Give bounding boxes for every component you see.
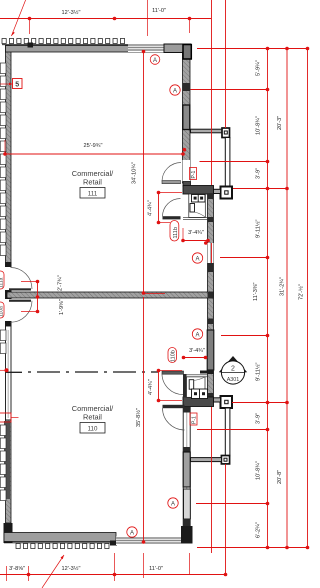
window boxes on exterior face of left wall	[0, 63, 6, 501]
wall: upper vestibule top wall	[183, 182, 214, 195]
witness y=89	[191, 89, 268, 91]
wall: mid right wall (vestibule to section line)	[207, 194, 214, 398]
svg-text:A: A	[195, 333, 199, 339]
top storefront window section	[128, 44, 164, 53]
dim 3'-4 3/4" upper vestibule	[181, 228, 210, 242]
door 110a swing arc	[11, 301, 33, 323]
witness y=547.5	[197, 547, 308, 549]
door lower second leaf (black)	[163, 405, 185, 408]
door tag 110b	[168, 348, 177, 363]
right dimension chain line 3	[306, 47, 310, 550]
svg-text:4'-4¾": 4'-4¾"	[148, 200, 154, 216]
door 111a swing arc	[11, 268, 33, 290]
svg-text:12'-3½": 12'-3½"	[62, 565, 81, 572]
door lower second swing arc	[163, 408, 185, 430]
svg-text:6'-2¼": 6'-2¼"	[256, 522, 262, 538]
svg-text:9'-11½": 9'-11½"	[255, 362, 262, 381]
wall: lower vestibule bottom wall	[183, 397, 214, 407]
interior vertical dim line x=143.5	[142, 50, 165, 544]
leader arrow top-left	[11, 0, 25, 36]
storefront face line bottom	[4, 542, 114, 544]
svg-text:1'-9⅝": 1'-9⅝"	[59, 299, 65, 315]
wall tag A (right wall upper)	[170, 85, 180, 95]
svg-text:111b: 111b	[173, 227, 179, 238]
room label 111	[72, 169, 114, 198]
svg-text:110a: 110a	[0, 306, 5, 317]
svg-text:3'-4¾": 3'-4¾"	[188, 230, 204, 236]
svg-text:2'-7¾": 2'-7¾"	[58, 275, 64, 291]
witness y=402	[232, 402, 287, 404]
svg-text:9'-11½": 9'-11½"	[255, 219, 262, 238]
dim 4'-4 3/4" upper vestibule	[157, 191, 182, 225]
svg-text:3'-9": 3'-9"	[256, 413, 262, 424]
upper vestibule door leaf rect	[190, 204, 195, 213]
column post mid-right	[221, 187, 233, 199]
wall tag A (top wall)	[150, 55, 160, 65]
wall tag A (lower mid wall)	[192, 329, 202, 339]
wall tag A (bottom wall)	[127, 527, 137, 537]
wall: demising wall between units	[7, 292, 214, 298]
top dimension line	[0, 17, 211, 34]
upper vestibule threshold lines	[183, 217, 208, 219]
storefront teeth along bottom wall	[16, 544, 109, 549]
svg-text:110b: 110b	[171, 350, 177, 362]
keynote box bottom-left (cut)	[0, 413, 19, 422]
upper vestibule inner leaf arc	[195, 212, 206, 217]
svg-text:A301: A301	[227, 377, 240, 383]
tag P-1 lower	[190, 413, 198, 425]
storefront joint notch	[28, 43, 34, 48]
red dot mid wall	[204, 241, 208, 245]
svg-text:A: A	[173, 89, 177, 95]
bottom wall joint block	[110, 541, 117, 546]
svg-text:Retail: Retail	[83, 178, 102, 187]
grid line x=146.5 top	[147, 0, 149, 36]
wall: left wall door openings (white gaps)	[5, 267, 12, 322]
upper vestibule equipment double-square	[192, 195, 206, 203]
dim 3'-4 3/4" lower vestibule	[182, 356, 208, 360]
door tag 111b	[170, 221, 179, 242]
upper terrace vertical railing	[225, 138, 230, 187]
door 110 lower vestibule swing arc	[162, 374, 183, 395]
door 110 lower vestibule leaf (gray)	[162, 371, 184, 374]
lower terrace horizontal railing	[191, 458, 222, 462]
upper terrace horizontal railing	[191, 129, 223, 133]
witness y=503	[196, 503, 268, 505]
witness y=429	[197, 429, 268, 431]
wall: top-right corner block	[164, 44, 191, 53]
tag P-1 upper	[190, 168, 198, 180]
witness y=48.5	[197, 48, 308, 50]
svg-text:A: A	[171, 502, 175, 508]
lower vestibule door leaf rect	[189, 380, 194, 390]
svg-text:25'-9¾": 25'-9¾"	[84, 143, 103, 149]
right dimension chain line 2	[285, 47, 289, 550]
door 110a leaf	[9, 300, 31, 302]
lower vestibule equipment double-square	[192, 389, 208, 399]
wall: bottom exterior wall band	[4, 533, 116, 542]
svg-text:Retail: Retail	[83, 413, 102, 422]
bottom dimension line	[0, 553, 227, 581]
svg-text:111a: 111a	[0, 277, 5, 288]
lower vestibule left jamb strip	[183, 374, 187, 398]
red dot right wall upper	[183, 148, 187, 152]
interior dim 25'-9 3/4"	[3, 140, 185, 156]
svg-text:12'-3½": 12'-3½"	[62, 9, 81, 16]
svg-text:3'-4¾": 3'-4¾"	[189, 348, 205, 354]
section marker 2/A301 circle	[221, 361, 245, 384]
right dimension chain line 1	[266, 47, 270, 550]
red dot at left wall on section line	[0, 369, 7, 371]
svg-text:20'-3": 20'-3"	[277, 116, 283, 130]
lower terrace vertical railing	[225, 408, 230, 456]
column post lower-mid	[221, 396, 233, 408]
grid line x=225.5	[225, 0, 227, 128]
door 111 upper vestibule leaf (gray)	[162, 181, 181, 184]
lower vestibule inner room outline	[187, 377, 206, 398]
grid line x=143.5 bottom stub	[143, 553, 145, 578]
door tag 110a	[0, 302, 5, 318]
svg-text:20'-8": 20'-8"	[277, 470, 283, 484]
svg-text:P-1: P-1	[192, 416, 198, 424]
dash-dot section line	[6, 371, 158, 373]
svg-text:5'-9¼": 5'-9¼"	[256, 60, 262, 76]
wall: left wall jamb blocks	[4, 262, 13, 543]
room label 110	[72, 404, 114, 433]
door vestibule second leaf (black)	[163, 216, 181, 219]
witness y=257	[220, 257, 268, 259]
leader arrow bottom	[42, 555, 64, 588]
dim 4'-4 3/4" lower vestibule	[157, 369, 182, 403]
witness y=158	[200, 161, 268, 163]
svg-text:3'-8⅝": 3'-8⅝"	[9, 566, 25, 572]
wall: top exterior wall band	[6, 46, 191, 53]
storefront face line top	[2, 44, 128, 46]
lower vestibule inner leaf arc	[194, 377, 205, 381]
svg-text:111: 111	[88, 191, 98, 198]
svg-text:31'-2¾": 31'-2¾"	[280, 277, 286, 296]
witness y=335	[221, 335, 268, 337]
svg-text:A: A	[195, 257, 199, 263]
svg-text:5: 5	[15, 82, 19, 89]
wall: left exterior wall gray band	[6, 46, 12, 524]
upper vestibule inner room outline	[189, 194, 206, 218]
svg-text:35'-8½": 35'-8½"	[135, 408, 142, 427]
section marker 2/A301 triangle	[219, 356, 247, 372]
wall: lower unit right wall	[181, 407, 193, 544]
storefront teeth along top wall	[2, 39, 125, 44]
svg-text:A: A	[153, 58, 157, 64]
door tag 111a	[0, 271, 5, 289]
svg-text:4'-4¾": 4'-4¾"	[148, 379, 154, 395]
svg-text:11'-0": 11'-0"	[149, 566, 163, 572]
svg-text:2: 2	[231, 366, 235, 373]
svg-text:11'-3⅜": 11'-3⅜"	[253, 282, 259, 301]
bottom storefront window section	[116, 537, 181, 546]
svg-text:11'-0": 11'-0"	[152, 8, 166, 14]
door 111a leaf	[9, 288, 31, 290]
door vestibule second swing arc	[163, 199, 181, 217]
door 111 upper vestibule swing arc	[162, 163, 181, 182]
connector rail post to vestibule wall (upper)	[214, 189, 221, 193]
keynote 5 box	[0, 79, 22, 89]
svg-text:10'-8¾": 10'-8¾"	[256, 116, 262, 135]
solid section line at right wall	[200, 371, 214, 374]
witness y=186	[233, 188, 287, 190]
column post upper-right	[222, 128, 230, 138]
connector rail post to vestibule wall (lower)	[214, 398, 221, 402]
svg-text:10'-8¾": 10'-8¾"	[256, 461, 262, 480]
wall: upper unit right wall	[183, 45, 192, 184]
column post lower-right	[221, 456, 229, 464]
grid line x=211	[211, 0, 213, 185]
svg-text:34'-10¾": 34'-10¾"	[132, 162, 138, 184]
lower vestibule threshold lines	[183, 375, 208, 377]
svg-text:P-1: P-1	[191, 171, 197, 179]
wall tag A (lower right wall)	[168, 498, 178, 508]
door dims at left wall	[21, 280, 39, 314]
svg-text:72'-½": 72'-½"	[298, 284, 305, 300]
svg-text:A: A	[130, 531, 134, 537]
wall tag A (mid wall)	[192, 253, 202, 263]
svg-text:3'-9": 3'-9"	[256, 168, 262, 179]
svg-text:110: 110	[88, 426, 98, 433]
